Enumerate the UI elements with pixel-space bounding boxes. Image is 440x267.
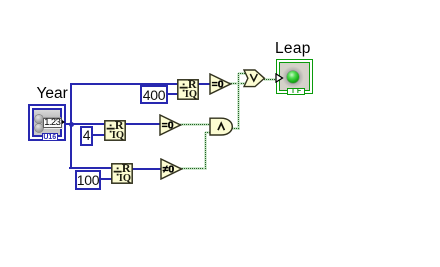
svg-text:=0: =0 xyxy=(212,78,224,90)
svg-text:≠0: ≠0 xyxy=(162,163,174,175)
svg-text:IQ: IQ xyxy=(118,173,130,184)
svg-text:IQ: IQ xyxy=(185,89,197,100)
svg-text:=0: =0 xyxy=(161,119,173,131)
svg-text:IQ: IQ xyxy=(112,130,124,141)
